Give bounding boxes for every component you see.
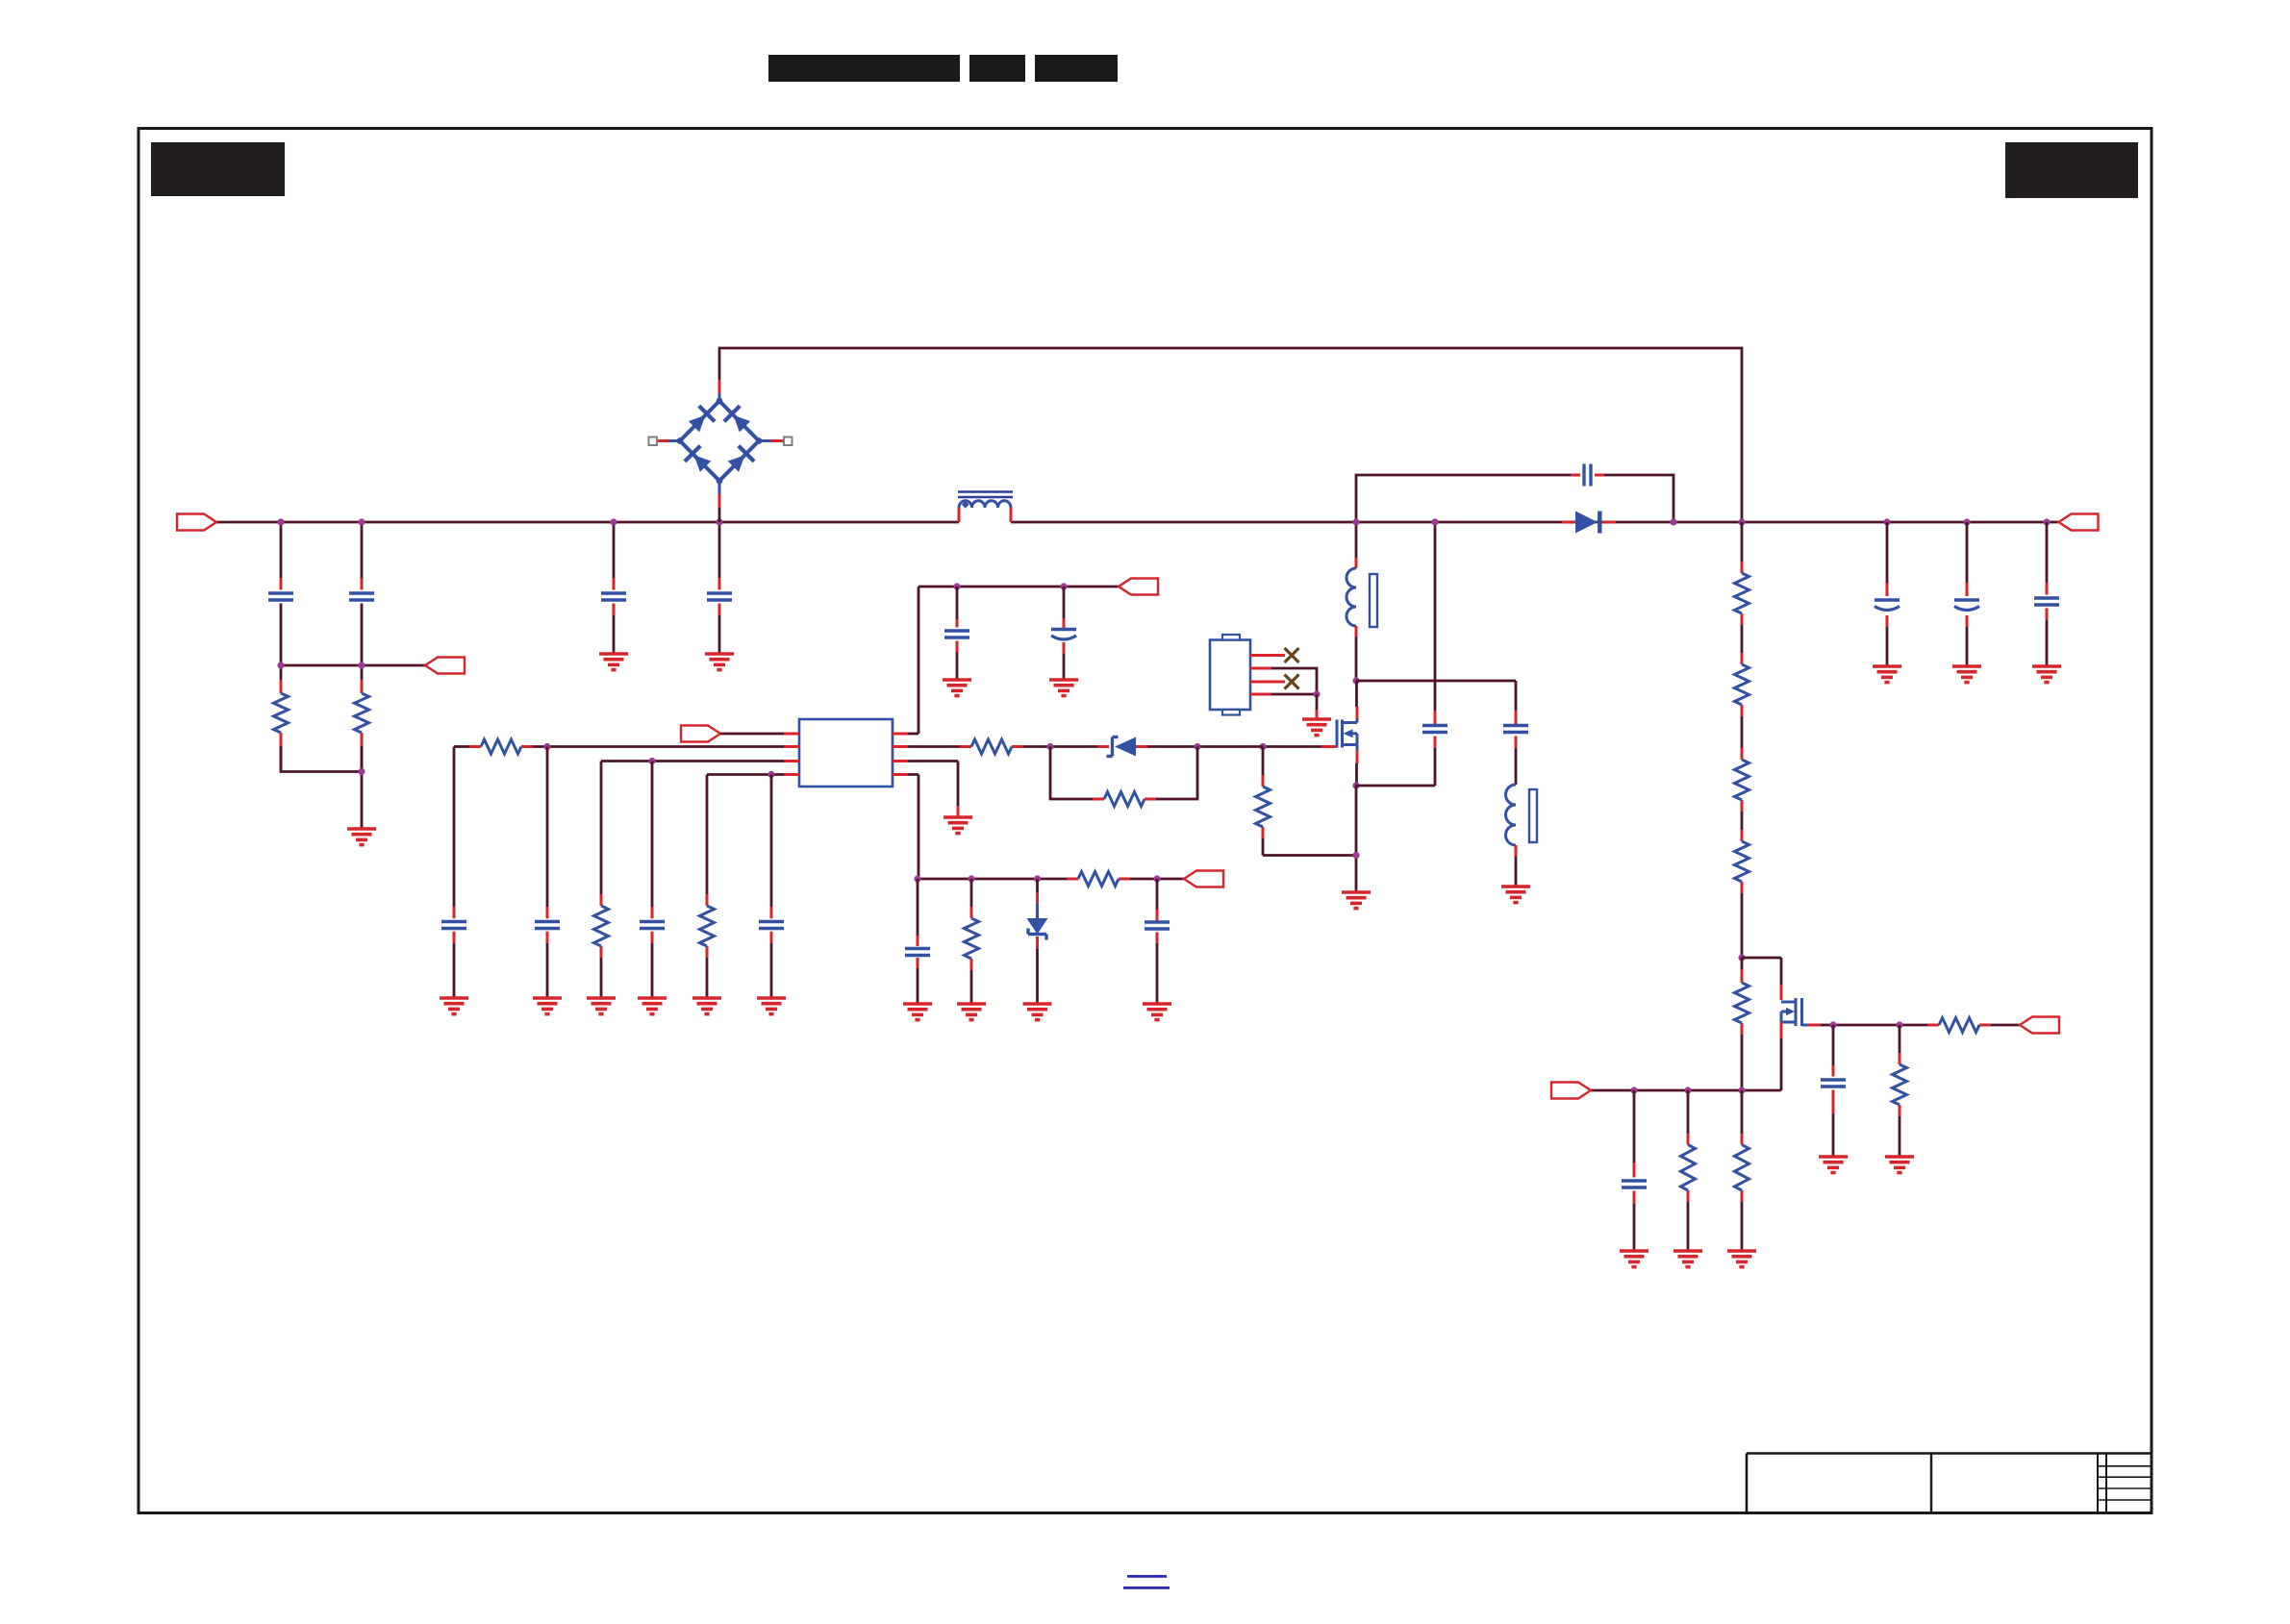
resistor R13	[1735, 664, 1749, 705]
ground U1	[944, 817, 972, 834]
wire top loop from bridge to bus	[719, 348, 1742, 522]
wire U1 pin R3	[908, 762, 958, 818]
junction bus x638	[610, 518, 617, 525]
ground C20	[2032, 666, 2061, 683]
wire bottom rail y1134	[1591, 1089, 1781, 1092]
capacitor C12	[944, 631, 969, 637]
redacted box top-right	[2005, 142, 2138, 198]
junction q2rail x1906	[1829, 1021, 1836, 1028]
resistor R3	[481, 739, 521, 754]
wire bottom link y802	[281, 746, 362, 829]
wire main bus right segment	[1011, 521, 2058, 524]
wire column x678	[651, 762, 654, 999]
resistor R14	[1735, 760, 1749, 800]
ground C10	[638, 998, 667, 1014]
transistor Q2	[1781, 998, 1807, 1026]
wire R2 lower loop	[1050, 747, 1197, 800]
junction bus out x2045	[1963, 518, 1970, 525]
wire U1 pin R1 up	[908, 587, 919, 734]
wire column x569	[546, 747, 549, 999]
wire J1 pin3	[1250, 681, 1285, 684]
transformer T1 primary winding	[1346, 568, 1377, 627]
resistor R16	[1735, 983, 1749, 1023]
wire gate resistor column	[1262, 747, 1265, 856]
junction gate node	[1259, 743, 1266, 750]
wire Q1 gate stub	[1321, 745, 1337, 748]
junction fb x1203	[1153, 875, 1160, 882]
wire column x802	[770, 775, 773, 999]
junction L3 x678	[648, 758, 655, 764]
redacted title bar 3	[1035, 55, 1118, 82]
wire U1 pin L4	[707, 773, 784, 776]
junction bus x748	[716, 518, 722, 525]
ground C17	[1819, 1157, 1848, 1173]
connector J1	[1210, 635, 1250, 715]
resistor R17	[1681, 1145, 1696, 1191]
junction bus x292	[277, 518, 284, 525]
wire main bus left segment	[216, 521, 959, 524]
ground R9	[957, 1004, 986, 1020]
ground J1	[1302, 719, 1331, 736]
ground R5	[692, 998, 721, 1014]
junction fb x1010	[968, 875, 974, 882]
capacitor C10	[640, 922, 665, 929]
wire column x954	[917, 879, 919, 1004]
junction bus x376	[358, 518, 365, 525]
wire U1 pin L2	[454, 745, 784, 748]
junction rail x1755	[1684, 1087, 1691, 1093]
wire J1 pin1	[1250, 654, 1285, 657]
connector vcc arrow	[1119, 579, 1158, 595]
redacted title bar 1	[768, 55, 960, 82]
connector node arrow	[425, 658, 465, 674]
connector input arrow left	[177, 514, 216, 531]
ground C8	[440, 998, 468, 1014]
wire source link	[1356, 785, 1435, 787]
inductor L1 line filter	[958, 492, 1013, 523]
wire red at diode D1	[1562, 521, 1616, 524]
wire Q1 drain stub	[1355, 681, 1359, 719]
ground Q1 source	[1342, 892, 1371, 909]
ground under divider	[347, 829, 376, 845]
junction J1 ground node	[1313, 690, 1320, 697]
ground C18	[1873, 666, 1901, 683]
zener diode D2	[1107, 737, 1137, 757]
wire chain resistor to rail	[1741, 958, 1744, 1090]
junction node x376	[358, 662, 365, 668]
wire cap column x292	[280, 522, 283, 665]
wire resistor column x376	[361, 665, 364, 772]
title block	[1747, 1454, 2152, 1513]
transistor Q1	[1337, 719, 1357, 750]
capacitor C14	[905, 949, 930, 956]
wire gate divider bottom	[1263, 854, 1356, 857]
capacitor C2	[349, 593, 374, 600]
capacitor C18 polarized	[1875, 600, 1900, 611]
wire J1 ground stub	[1316, 694, 1319, 719]
junction drain node	[1352, 677, 1359, 684]
capacitor C7	[1503, 726, 1528, 733]
capacitor C17	[1821, 1080, 1846, 1087]
junction L4 x802	[768, 771, 774, 778]
op-amp U1 controller	[799, 719, 893, 787]
resistor R15	[1735, 841, 1749, 882]
wire column x2045	[1966, 522, 1969, 666]
no-connect pin3	[1285, 675, 1299, 689]
resistor R4	[594, 906, 609, 946]
connector output arrow right	[2059, 514, 2099, 531]
capacitor C19 polarized	[1954, 600, 1979, 611]
junction bus out x1962	[1883, 518, 1890, 525]
junction chain x1811 y996	[1738, 954, 1745, 961]
ground aux	[1501, 887, 1530, 903]
wire source column	[1355, 786, 1358, 892]
wire column x1010	[970, 879, 973, 1004]
resistor R9	[965, 918, 979, 959]
junction fb x954	[914, 875, 920, 882]
no-connect pin1	[1285, 648, 1299, 662]
junction source bottom	[1352, 852, 1359, 859]
ground C9	[533, 998, 562, 1014]
wire column x2128	[2046, 522, 2049, 666]
wire vcc rail y610	[919, 586, 1119, 588]
wire cap column x376	[361, 522, 364, 665]
capacitor C20	[2034, 598, 2059, 605]
resistor R11 gate	[1256, 787, 1271, 827]
wire sense chain x1811	[1741, 522, 1744, 958]
resistor R2	[355, 693, 369, 733]
resistor R1	[274, 693, 289, 733]
wire J1 pin4	[1250, 693, 1317, 696]
redacted box top-left	[151, 142, 285, 196]
ground C13	[1049, 680, 1078, 696]
resistor R5	[700, 906, 715, 946]
junction source node	[1352, 782, 1359, 788]
ground R20	[1885, 1157, 1914, 1173]
wire Q2 gate loop	[1742, 958, 1781, 1000]
ground C12	[943, 680, 971, 696]
resistor R6	[971, 739, 1012, 754]
link underline 2	[1123, 1587, 1170, 1589]
capacitor C1	[268, 593, 293, 600]
sheet border frame	[138, 129, 2152, 1513]
wire Q2 out	[1807, 1024, 1833, 1027]
wire column x1906	[1832, 1025, 1835, 1157]
junction fb x1078	[1034, 875, 1041, 882]
wire column x625	[600, 762, 603, 999]
wire aux column upper	[1515, 681, 1518, 724]
ground D3	[1023, 1004, 1052, 1020]
junction R2 x1092	[1046, 743, 1053, 750]
wire column x995	[956, 587, 959, 680]
wire cap column x748	[718, 522, 721, 654]
capacitor C3	[601, 593, 626, 600]
wire resistor column x292	[280, 665, 283, 772]
wire column x1962	[1886, 522, 1889, 666]
resistor R12	[1735, 573, 1749, 613]
ground R18	[1727, 1251, 1756, 1267]
resistor R8	[1078, 872, 1119, 887]
wire column x472	[453, 747, 456, 999]
wire snubber loop	[1356, 475, 1673, 522]
junction vcc x995	[953, 583, 960, 589]
ground C4	[705, 654, 734, 670]
wire Q2 rail y1066	[1833, 1024, 2020, 1027]
resistor R19	[1939, 1018, 1979, 1033]
zener diode D3	[1027, 904, 1048, 940]
wire U1 pin L1	[720, 733, 784, 736]
link underline 1	[1127, 1575, 1167, 1578]
wire U1 pin L3	[601, 760, 784, 762]
resistor R7	[1104, 792, 1145, 807]
connector feedback arrow	[1184, 871, 1223, 887]
wire snubber cap column x1492	[1434, 522, 1437, 786]
transformer T1 aux winding	[1506, 785, 1537, 845]
wire aux to ground	[1515, 845, 1518, 887]
junction node x292	[277, 662, 284, 668]
junction vcc x1106	[1060, 583, 1067, 589]
wire column x1975	[1899, 1025, 1901, 1157]
junction q2rail x1975	[1896, 1021, 1902, 1028]
ground C19	[1952, 666, 1981, 683]
junction L2 x569	[543, 743, 550, 750]
ground C11	[757, 998, 786, 1014]
capacitor C5 snubber	[1584, 464, 1591, 487]
resistor R18	[1735, 1145, 1749, 1191]
capacitor C8	[441, 922, 466, 929]
wire primary top	[1355, 522, 1358, 568]
wire column x1699	[1633, 1090, 1636, 1251]
diode D1	[1575, 512, 1599, 534]
bridge rectifier BR1	[649, 380, 793, 522]
wire Q2 source down	[1780, 1022, 1783, 1090]
capacitor C13 polarized	[1051, 630, 1076, 640]
connector Q2 out arrow	[2020, 1017, 2059, 1034]
junction bus x1410	[1352, 518, 1359, 525]
capacitor C16	[1622, 1181, 1647, 1187]
wire cap column x638	[613, 522, 616, 654]
wire primary bottom	[1355, 626, 1358, 681]
ground R17	[1673, 1251, 1702, 1267]
redacted title bar 2	[969, 55, 1025, 82]
capacitor C9	[535, 922, 560, 929]
wire column x735	[706, 775, 709, 999]
wire Q1 source stub	[1355, 750, 1359, 786]
wire node row y692	[281, 664, 425, 667]
wire drain link	[1356, 680, 1516, 683]
wire gate node	[1263, 745, 1321, 748]
wire U1 pin R2	[908, 745, 1263, 748]
wire column x1755	[1687, 1090, 1690, 1251]
junction bus out x2128	[2043, 518, 2050, 525]
wire column x1811b	[1741, 1090, 1744, 1251]
wire U1 pin stubs	[784, 734, 908, 775]
capacitor C11	[759, 922, 784, 929]
ground C3	[599, 654, 628, 670]
capacitor C6	[1422, 726, 1447, 733]
junction R2 x1245	[1194, 743, 1200, 750]
connector U1 input arrow	[681, 726, 720, 742]
resistor R20	[1893, 1064, 1907, 1105]
junction bottom x376	[358, 768, 365, 775]
junction bus x1740	[1670, 518, 1676, 525]
wire aux column lower	[1515, 737, 1518, 786]
wire J1 pin2	[1250, 668, 1317, 694]
wire U1 pin R4 down	[908, 775, 919, 880]
wire feedback rail y914	[918, 878, 1184, 881]
junction bus x1811	[1738, 518, 1745, 525]
ground C14	[903, 1004, 932, 1020]
ground C16	[1620, 1251, 1648, 1267]
ground C15	[1143, 1004, 1171, 1020]
wire column x1078	[1036, 879, 1039, 1004]
wire column x1106	[1063, 587, 1066, 680]
capacitor C15	[1145, 922, 1170, 929]
junction rail x1699	[1630, 1087, 1637, 1093]
junction rail x1811	[1738, 1087, 1745, 1093]
wire column x1203	[1156, 879, 1159, 1004]
capacitor C4	[707, 593, 732, 600]
junction bus x1492	[1431, 518, 1438, 525]
ground R4	[587, 998, 616, 1014]
connector bottom input arrow	[1551, 1083, 1591, 1099]
